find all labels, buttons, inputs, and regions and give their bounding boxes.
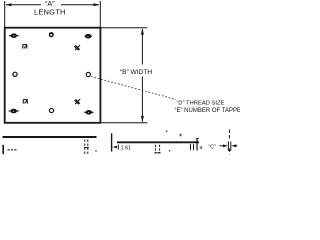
tapped hole top-right	[85, 35, 93, 38]
plate outline (top view)	[5, 28, 101, 123]
thickness dim arrow right	[231, 144, 237, 147]
dimension A extension line left	[4, 1, 6, 28]
thickness extension dashed line above	[229, 130, 231, 141]
svg-text:a: a	[200, 145, 203, 151]
svg-text:“D” THREAD SIZE: “D” THREAD SIZE	[177, 101, 225, 107]
dimension A line left segment	[6, 4, 41, 6]
tapped hole middle-left	[13, 72, 17, 76]
second view tick pair	[191, 144, 194, 150]
dimension A right arrowhead	[94, 3, 100, 6]
thickness extension dashed line below	[229, 149, 231, 155]
B width extension line top	[100, 27, 147, 29]
svg-text:“C”: “C”	[208, 144, 216, 150]
B width bottom arrowhead	[141, 116, 144, 122]
dot under side view	[95, 150, 97, 152]
second view left edge line	[111, 133, 113, 151]
second view left arrow mark	[112, 146, 117, 149]
tapped hole middle-right	[86, 72, 90, 76]
dimension A left arrowhead	[5, 3, 11, 6]
second view top surface line	[117, 141, 199, 143]
dot under second view	[169, 150, 171, 152]
second view small tick	[117, 145, 119, 150]
small dot above second view line	[166, 130, 168, 132]
second view right edge line	[196, 139, 198, 151]
svg-text:“E” NUMBER OF TAPPED HOLES: “E” NUMBER OF TAPPED HOLES	[175, 108, 241, 114]
countersink mark upper-right	[74, 45, 80, 50]
countersink mark upper-left	[23, 44, 27, 48]
small cross above line	[179, 134, 182, 137]
countersink mark lower-right	[75, 99, 81, 104]
svg-text:LENGTH: LENGTH	[34, 8, 66, 17]
side view tapped hole hidden lines	[84, 140, 89, 155]
thickness gap lines	[228, 142, 230, 152]
tapped hole bottom-center	[49, 108, 53, 112]
side view hidden center line (dashes)	[8, 149, 18, 151]
side view left edge	[2, 145, 4, 154]
tapped hole top-center	[50, 33, 54, 37]
svg-text:1 61: 1 61	[121, 146, 132, 152]
B width dimension line upper segment	[141, 29, 143, 65]
thickness dim arrow left	[220, 144, 229, 147]
B width top arrowhead	[141, 28, 144, 34]
countersink mark lower-left	[23, 99, 27, 103]
tapped hole bottom-left	[9, 109, 19, 112]
tapped hole top-left	[9, 34, 19, 37]
leader line (dashed) to note	[91, 77, 176, 100]
B width extension line bottom	[100, 122, 147, 124]
B width dimension line lower segment	[141, 77, 143, 122]
dimension A extension line right	[99, 1, 101, 28]
side view top surface line	[3, 136, 97, 138]
tapped hole bottom-right	[84, 111, 93, 114]
second view tapped hole hidden lines	[154, 145, 160, 153]
dimension A line right segment	[61, 4, 99, 6]
svg-text:“B” WIDTH: “B” WIDTH	[120, 69, 152, 76]
second view right edge top dash	[196, 137, 199, 139]
